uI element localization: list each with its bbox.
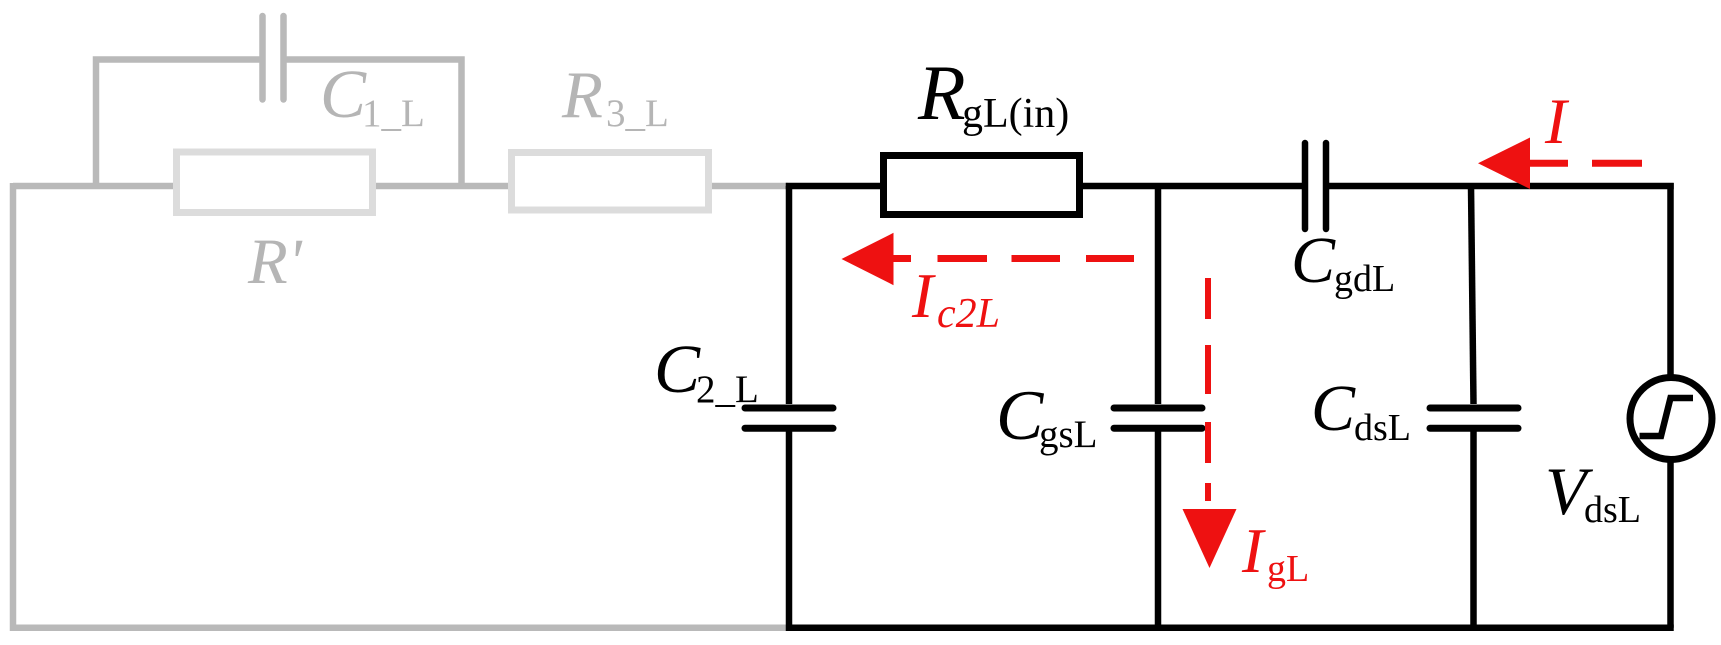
capacitor C1_L — [263, 16, 284, 100]
capacitor CgdL — [1305, 143, 1326, 229]
svg-text:C: C — [1311, 372, 1356, 445]
capacitor C2_L — [745, 408, 833, 428]
svg-text:dsL: dsL — [1354, 407, 1411, 449]
svg-text:gsL: gsL — [1039, 413, 1098, 456]
label IgL — [1241, 515, 1309, 590]
resistor R' — [177, 152, 373, 213]
capacitor CdsL — [1430, 408, 1518, 428]
label R3_L — [561, 58, 669, 135]
svg-text:gL: gL — [1267, 548, 1309, 590]
svg-text:C: C — [654, 331, 701, 407]
wire: gray main between R3_L and black circuit — [708, 183, 788, 190]
wire: black top between RgL(in) and CgdL — [1080, 183, 1302, 190]
svg-text:R: R — [561, 58, 603, 132]
label CgsL — [996, 377, 1098, 456]
label VdsL — [1545, 453, 1641, 531]
capacitor CgsL — [1114, 408, 1202, 428]
label C1_L — [320, 56, 425, 135]
label RgL(in) — [917, 49, 1069, 137]
label C2_L — [654, 331, 759, 411]
wire: gray top-left branch (left vertical of C1 loop + top wire left) — [96, 60, 260, 190]
svg-text:C: C — [1291, 224, 1336, 297]
wire: right vertical above source — [1667, 183, 1674, 377]
svg-text:C: C — [996, 377, 1045, 455]
current arrow IgL (vertical dashed, pointing down) — [1205, 278, 1211, 501]
svg-text:3_L: 3_L — [606, 92, 669, 135]
wire: black top from gray joint to RgL(in) — [786, 183, 884, 190]
wire: gray left outer vertical + bottom return — [13, 183, 788, 628]
label CgdL — [1291, 224, 1395, 300]
svg-text:dsL: dsL — [1584, 489, 1641, 531]
svg-text:c2L: c2L — [937, 291, 1000, 337]
wire: middle vertical upper (CgsL branch) — [1155, 186, 1162, 404]
wire: CdsL branch lower — [1470, 428, 1477, 628]
wire: right vertical below source — [1667, 460, 1674, 628]
svg-text:R': R' — [247, 226, 303, 298]
label CdsL — [1311, 372, 1411, 449]
svg-text:I: I — [1544, 86, 1570, 158]
svg-text:gdL: gdL — [1334, 258, 1395, 300]
current arrow Ic2L (dashed, pointing left) — [842, 233, 894, 285]
svg-text:1_L: 1_L — [362, 92, 425, 135]
wire: middle vertical lower — [1155, 428, 1162, 629]
wire: black left vertical upper (node g) — [786, 186, 793, 404]
source VdsL circle — [1630, 378, 1712, 460]
wire: black top from CgdL to right corner — [1329, 183, 1674, 190]
wire: gray top wire right part + right vertical down to main wire — [287, 60, 462, 190]
wire: CdsL branch upper (slightly slanted) — [1471, 186, 1474, 404]
svg-text:I: I — [1241, 515, 1266, 586]
label Ic2L — [911, 260, 1000, 337]
svg-text:R: R — [917, 49, 966, 136]
svg-text:C: C — [320, 56, 367, 132]
svg-text:I: I — [911, 260, 936, 331]
resistor RgL(in) — [884, 156, 1080, 215]
wire: black left vertical lower + bottom wire — [789, 428, 1674, 628]
resistor R3_L — [512, 153, 709, 211]
wire: gray main between R' and R3_L — [372, 183, 512, 190]
current arrow I (top right, dashed, pointing left) — [1478, 138, 1530, 190]
svg-text:2_L: 2_L — [696, 368, 759, 411]
source VdsL step symbol — [1640, 398, 1694, 436]
wire: gray main horizontal left segment — [13, 183, 180, 190]
svg-text:gL(in): gL(in) — [962, 91, 1069, 137]
